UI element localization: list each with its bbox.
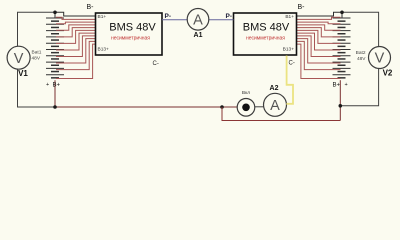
svg-text:несимметричная: несимметричная — [246, 36, 285, 42]
svg-text:B1+: B1+ — [98, 14, 107, 20]
svg-text:V: V — [375, 51, 385, 67]
svg-text:P-: P- — [226, 13, 233, 20]
svg-text:B1+: B1+ — [285, 14, 294, 20]
svg-text:BMS 48V: BMS 48V — [243, 22, 290, 34]
svg-text:BMS 48V: BMS 48V — [109, 22, 156, 34]
svg-text:B-: B- — [298, 4, 306, 11]
svg-text:C-: C- — [153, 61, 159, 67]
svg-text:48V: 48V — [357, 56, 366, 62]
svg-text:48V: 48V — [32, 56, 41, 62]
svg-text:несимметричная: несимметричная — [111, 36, 150, 42]
svg-text:B-: B- — [87, 4, 95, 11]
svg-text:A: A — [193, 12, 203, 28]
svg-text:A1: A1 — [194, 32, 203, 39]
svg-text:A2: A2 — [270, 85, 279, 92]
svg-text:B+: B+ — [333, 83, 341, 89]
svg-text:Bat1: Bat1 — [32, 49, 42, 55]
svg-text:Вкл: Вкл — [242, 90, 250, 96]
svg-text:Bat2: Bat2 — [356, 50, 366, 56]
svg-text:C-: C- — [289, 61, 295, 67]
svg-text:P-: P- — [165, 13, 172, 20]
svg-text:B13+: B13+ — [283, 46, 295, 52]
svg-text:+: + — [345, 82, 348, 88]
svg-text:B13+: B13+ — [98, 46, 110, 52]
svg-text:V1: V1 — [18, 69, 28, 78]
svg-text:V2: V2 — [383, 69, 393, 78]
svg-text:V: V — [14, 51, 24, 67]
svg-text:A: A — [270, 98, 280, 114]
svg-text:B+: B+ — [53, 83, 61, 89]
svg-text:+: + — [46, 82, 49, 88]
